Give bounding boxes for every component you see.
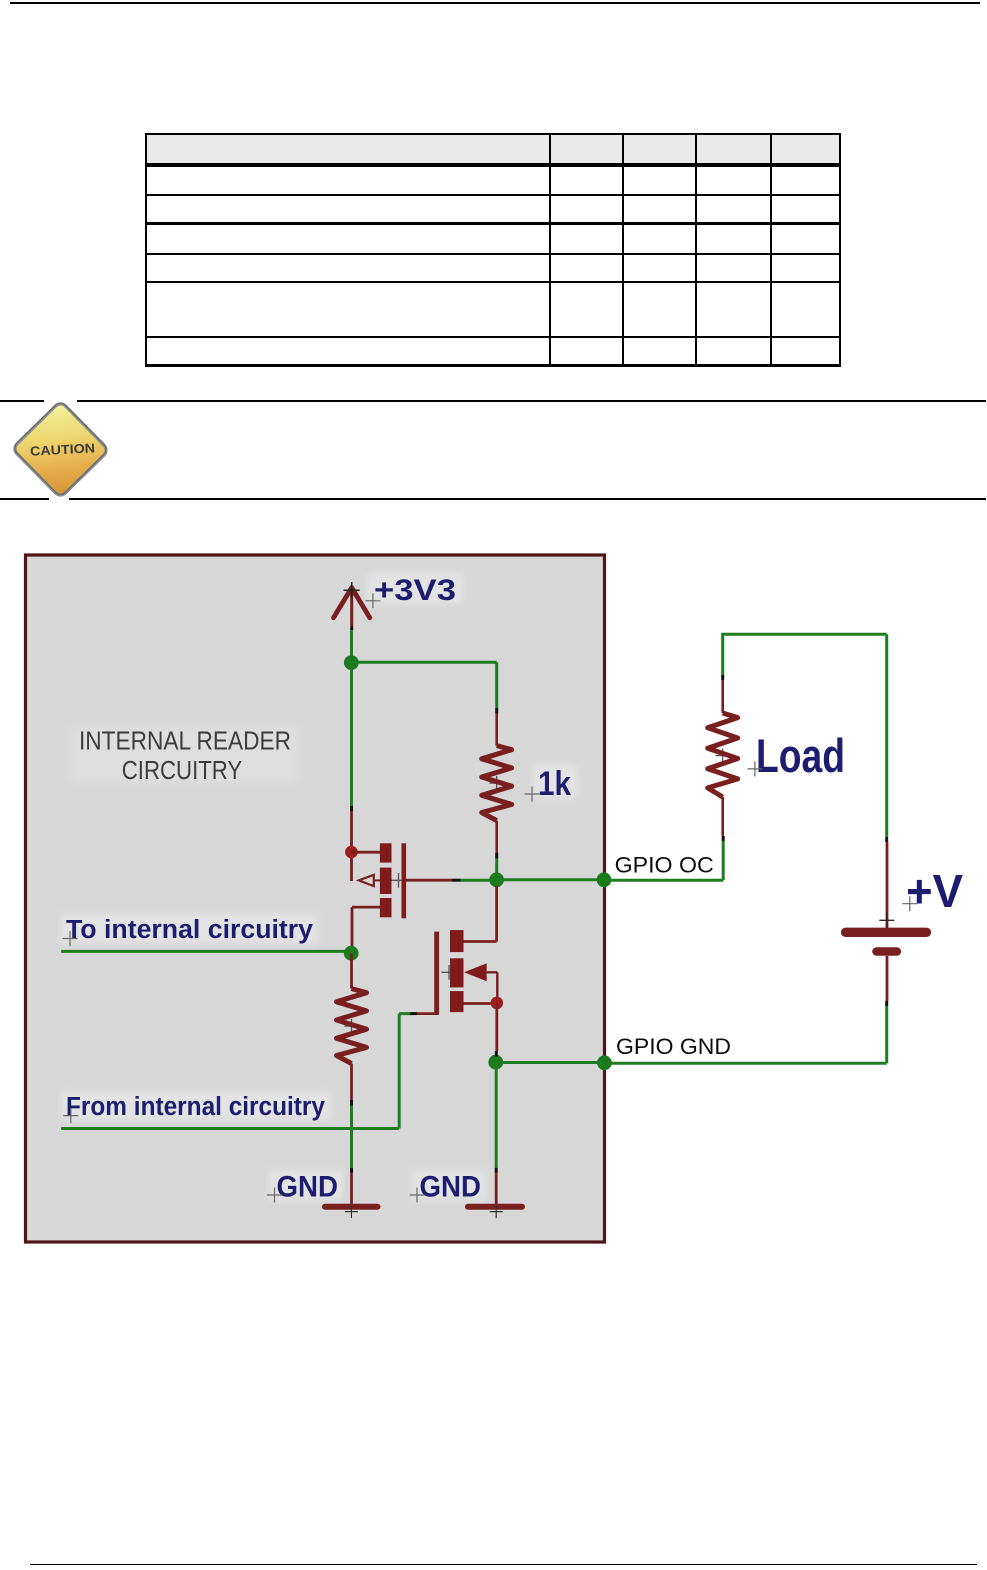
- right border: [839, 133, 841, 367]
- origin cross near GND2: [410, 1188, 425, 1203]
- resistor R2: [337, 989, 367, 1064]
- node GPIO OC inner junction dot: [489, 872, 504, 887]
- pin tick below Load: [722, 836, 725, 841]
- ground GND2: [468, 1173, 522, 1207]
- internal reader circuitry box: [26, 555, 605, 1242]
- origin cross at Load center: [716, 749, 730, 763]
- svg-text:1k: 1k: [538, 765, 572, 803]
- pin tick PMOS gate: [452, 879, 461, 882]
- label To internal circuitry: [66, 916, 314, 944]
- pin tick NMOS gate: [410, 1012, 417, 1015]
- label +V: [906, 865, 963, 917]
- col line 4: [770, 133, 772, 367]
- Q1 gate pin: [406, 879, 452, 882]
- wire battery bottom to GPIO GND: [605, 1006, 887, 1063]
- svg-text:+V: +V: [906, 865, 963, 917]
- col line 2: [622, 133, 624, 367]
- Q2 source pin: [464, 1002, 498, 1005]
- row line 1: [145, 194, 841, 196]
- row line 2: [145, 222, 841, 224]
- pin tick below R2: [350, 1100, 353, 1106]
- label 1k: [538, 765, 572, 803]
- wire PMOS gate to GPIO OC node: [461, 879, 492, 882]
- row line 5: [145, 336, 841, 338]
- pin cross below GND1: [345, 1205, 358, 1218]
- wire NMOS source node to GND2: [495, 1062, 498, 1168]
- resistor R1 1k: [482, 746, 512, 821]
- Q2 bulk arrow filled: [464, 963, 487, 981]
- label GPIO OC: [615, 852, 714, 877]
- pin tick below 1k: [495, 853, 498, 859]
- svg-text:Load: Load: [756, 729, 845, 782]
- transistor Q2 NMOS: [417, 886, 497, 1014]
- Q2 channel strips: [450, 930, 464, 952]
- svg-text:GND: GND: [277, 1171, 339, 1204]
- origin cross at R2 center: [344, 1019, 358, 1033]
- pin tick above battery: [885, 837, 888, 842]
- wire GPIO OC node to border: [497, 878, 598, 881]
- label GPIO GND: [616, 1034, 731, 1059]
- node GPIO OC border dot: [597, 872, 612, 887]
- caution section bottom rule (split around icon): [0, 498, 49, 500]
- Q2 gate pin: [417, 1012, 439, 1015]
- left border: [145, 133, 147, 367]
- caution diamond icon: [0, 391, 125, 507]
- Q1 drain pin: [352, 907, 380, 948]
- node NMOS bulk-source red dot: [491, 997, 504, 1010]
- svg-text:GND: GND: [420, 1171, 482, 1204]
- node GPIO GND border dot: [597, 1055, 612, 1070]
- Q1 bulk arrow (open, pointing left): [359, 875, 374, 886]
- origin cross at Q2 center: [442, 965, 457, 980]
- pin R2 bottom: [350, 1064, 353, 1100]
- wire R2 bottom to GND1: [350, 1106, 353, 1168]
- ground GND1: [325, 1173, 378, 1207]
- Q2 gate bar: [434, 932, 439, 1014]
- label Load: [756, 729, 845, 782]
- Q2 drain pin: [464, 886, 497, 942]
- battery plus polarity cross: [879, 913, 894, 928]
- node NMOS source junction dot: [488, 1055, 503, 1070]
- pin R2 top: [350, 953, 353, 988]
- wire GPIO GND border to NMOS source node: [500, 1061, 604, 1064]
- col line 3: [695, 133, 697, 367]
- header gray fill: [146, 134, 840, 164]
- svg-text:From internal circuitry: From internal circuitry: [66, 1093, 326, 1121]
- pin tick above GND1: [350, 1168, 353, 1173]
- pin cross below GND2: [490, 1205, 503, 1218]
- col line 1: [549, 133, 551, 367]
- pin cross at arrow tip: [344, 582, 360, 598]
- origin cross near 1k: [525, 787, 540, 802]
- wire 3V3 column down to PMOS (green part): [350, 669, 353, 806]
- wire 1k bottom to GPIO OC node: [495, 859, 498, 875]
- origin cross near Load: [747, 761, 762, 776]
- origin cross at Q1 center: [391, 873, 406, 888]
- origin cross near To internal circuitry: [63, 931, 78, 946]
- top horizontal rule: [10, 2, 980, 4]
- Q1 channel strips: [380, 843, 392, 862]
- pin 1k top: [495, 714, 498, 746]
- node PMOS source junction red dot: [345, 846, 358, 859]
- svg-text:GPIO OC: GPIO OC: [615, 852, 714, 877]
- bottom horizontal rule: [30, 1564, 977, 1566]
- svg-text:To internal circuitry: To internal circuitry: [66, 916, 314, 944]
- wire GPIO OC to load column: [604, 841, 723, 880]
- label +3V3: [374, 574, 456, 607]
- resistor Load: [708, 713, 738, 797]
- pin Load bottom: [721, 797, 724, 836]
- outer border top: [145, 133, 841, 135]
- svg-text:+3V3: +3V3: [374, 574, 456, 607]
- pin tick above NMOS source node: [495, 1051, 498, 1057]
- pin Load top: [721, 680, 724, 713]
- wire Load top to battery top: [721, 634, 887, 837]
- pin 1k bottom: [495, 821, 498, 853]
- row line 3: [145, 253, 841, 255]
- origin cross near +3V3: [365, 593, 380, 608]
- pin tick above PMOS source: [350, 806, 353, 811]
- wire 3V3 junction to 1k column: [351, 662, 496, 708]
- svg-text:GPIO GND: GPIO GND: [616, 1034, 731, 1059]
- node To-internal junction dot: [344, 946, 359, 961]
- pin tick above Load: [721, 675, 724, 680]
- origin cross near GND1: [267, 1188, 282, 1203]
- wire PMOS source column dark red: [350, 811, 353, 881]
- table bottom border: [145, 364, 841, 367]
- transistor Q1 PMOS: [351, 843, 452, 948]
- table (empty cells): [0, 0, 1, 1]
- label GND2: [420, 1171, 482, 1204]
- wire NMOS source down to node: [495, 1003, 498, 1051]
- caution section top rule (split around icon): [0, 400, 44, 402]
- wire To internal circuitry: [61, 950, 347, 953]
- origin cross near +V: [902, 896, 917, 911]
- origin cross near From internal circuitry: [63, 1108, 78, 1123]
- pin battery bottom: [886, 956, 889, 1001]
- pin tick above GND2: [495, 1168, 498, 1173]
- label From internal circuitry: [66, 1093, 326, 1121]
- Q1 source pin: [351, 851, 380, 854]
- node 3V3 junction dot: [344, 655, 359, 670]
- wire 3V3 stem green: [350, 627, 353, 631]
- battery B1 plates: [846, 932, 927, 951]
- wire NMOS gate to From-internal: [61, 1014, 410, 1129]
- Q1 gate bar: [402, 843, 407, 918]
- power symbol +3V3 arrow: [334, 588, 370, 627]
- label GND1: [277, 1171, 339, 1204]
- header thick separator: [145, 163, 841, 167]
- pin tick below battery: [885, 1001, 888, 1006]
- pin battery top: [886, 842, 889, 928]
- wire 3V3 stem green lower: [350, 630, 353, 656]
- origin cross at R1 center: [490, 776, 504, 790]
- pin tick above 1k: [495, 708, 498, 714]
- label INTERNAL READER CIRCUITRY: [79, 728, 291, 786]
- row line 4: [145, 281, 841, 283]
